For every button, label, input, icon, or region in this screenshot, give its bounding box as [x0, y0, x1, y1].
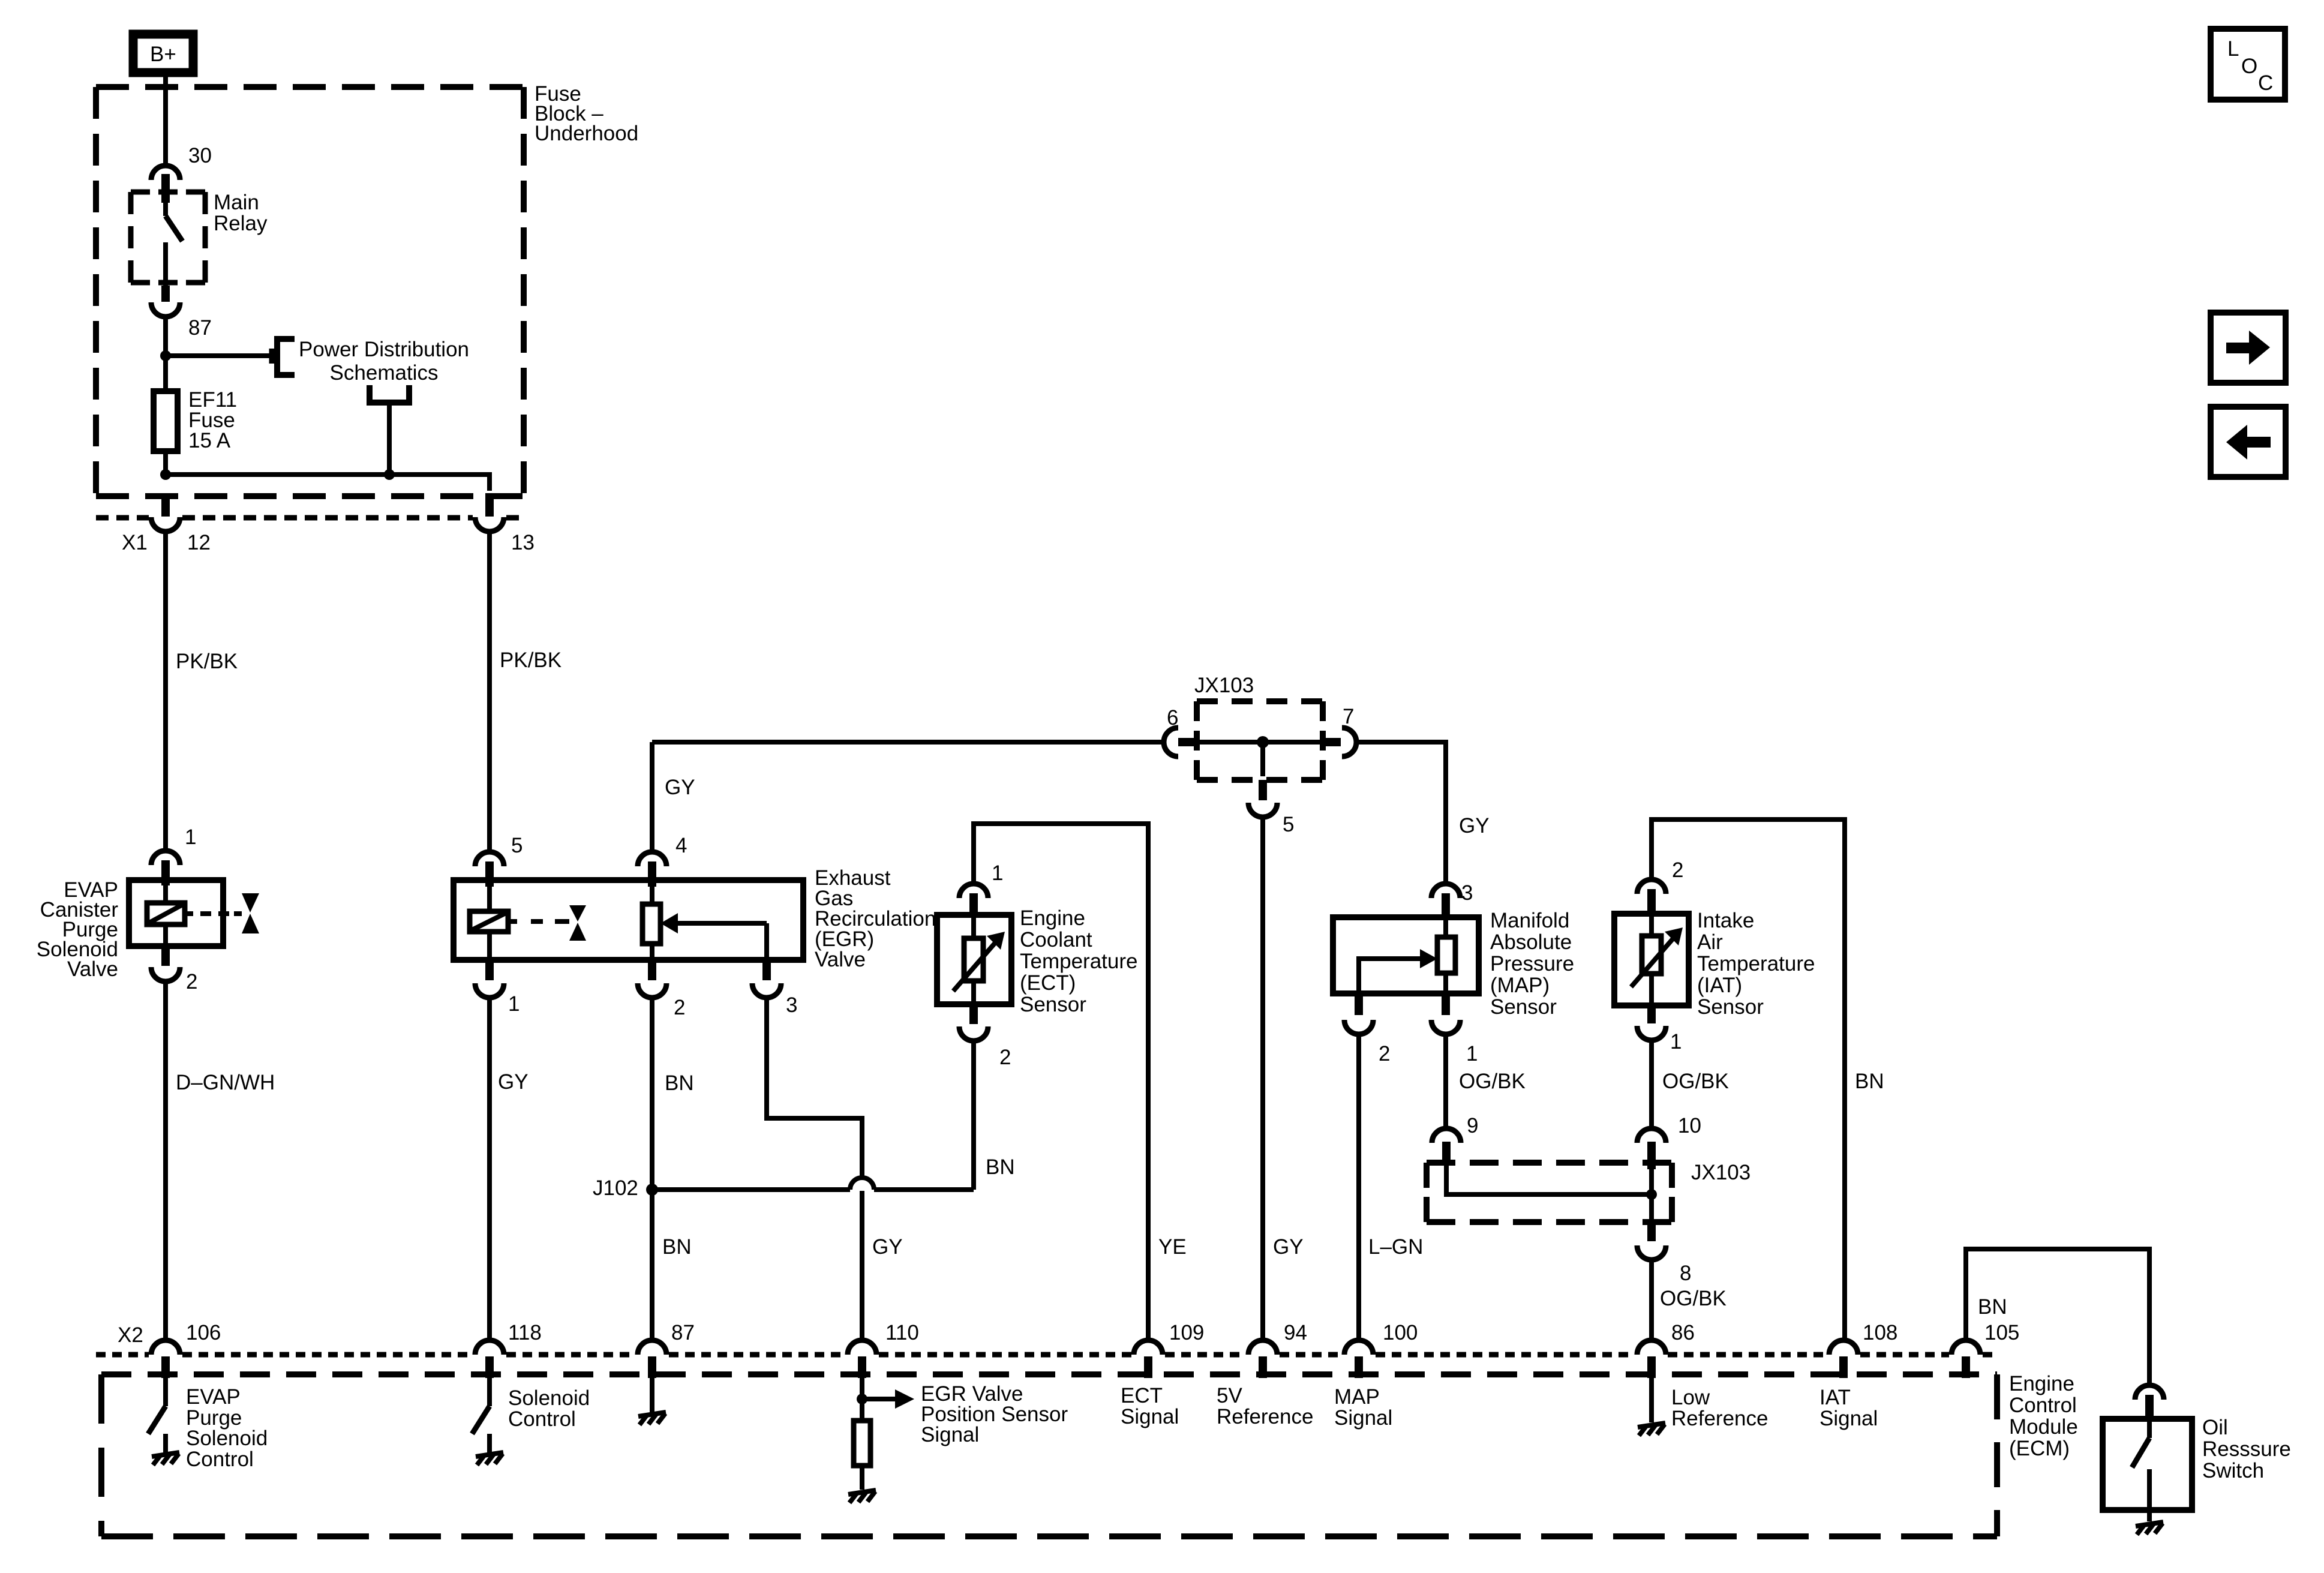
svg-text:Signal: Signal	[1819, 1407, 1878, 1430]
svg-text:(MAP): (MAP)	[1490, 974, 1550, 997]
svg-text:JX103: JX103	[1194, 674, 1254, 697]
wire GY pin4 up to 5V bus	[650, 742, 654, 849]
svg-text:L–GN: L–GN	[1368, 1235, 1423, 1259]
solenoid driver switch 118	[472, 1378, 490, 1452]
svg-text:9: 9	[1467, 1114, 1478, 1137]
svg-text:Control: Control	[2009, 1394, 2077, 1417]
svg-text:Reference: Reference	[1217, 1405, 1313, 1428]
wire OG/BK IAT pin1 to JX103 pin 10	[1649, 1041, 1654, 1127]
oil switch connector	[2135, 1385, 2164, 1421]
ECM dashed box	[101, 1374, 1997, 1536]
svg-text:Coolant: Coolant	[1020, 928, 1092, 951]
svg-text:Valve: Valve	[815, 948, 866, 971]
svg-text:Solenoid: Solenoid	[508, 1386, 590, 1410]
svg-text:Relay: Relay	[214, 212, 268, 235]
ground 87	[650, 1378, 654, 1412]
label EVAP Purge Solenoid Control	[186, 1385, 268, 1471]
X1 connector dotted row	[96, 515, 526, 521]
MAP pin 3 connector	[1431, 884, 1460, 918]
J102 junction dot	[646, 1184, 658, 1196]
MAP wiper arrow	[1359, 949, 1437, 993]
svg-text:Oil: Oil	[2202, 1416, 2228, 1439]
pin 94 connector	[1248, 1340, 1277, 1378]
pin 118 connector	[475, 1340, 504, 1378]
svg-text:Intake: Intake	[1697, 909, 1754, 932]
wire L-GN MAP signal to ECM 100	[1356, 1035, 1361, 1338]
ECT pin 1 connector	[959, 884, 988, 917]
svg-text:EVAP: EVAP	[186, 1385, 241, 1409]
EGR box	[454, 880, 803, 960]
pin 7 connector	[1323, 728, 1356, 757]
label EGR Valve Position Sensor Signal	[921, 1382, 1068, 1446]
svg-text:100: 100	[1383, 1321, 1418, 1344]
bus wire to pin 13	[166, 475, 490, 491]
svg-text:GY: GY	[498, 1070, 529, 1094]
ECT label	[1020, 906, 1137, 1016]
relay switch	[161, 203, 182, 302]
svg-text:109: 109	[1169, 1321, 1204, 1344]
svg-text:OG/BK: OG/BK	[1660, 1287, 1727, 1310]
EGR position sensor potentiometer	[642, 880, 660, 960]
svg-text:Underhood: Underhood	[535, 122, 638, 145]
wire OG/BK pin 8 to ECM 86	[1649, 1261, 1654, 1338]
internal bus	[1195, 740, 1323, 745]
svg-text:118: 118	[508, 1321, 542, 1344]
svg-text:PK/BK: PK/BK	[176, 650, 238, 673]
svg-text:Air: Air	[1697, 930, 1723, 954]
wire BN EGR pin2 down through J102 to ECM 87	[650, 999, 654, 1338]
svg-text:Low: Low	[1671, 1386, 1710, 1409]
svg-text:5: 5	[511, 834, 523, 857]
left arrow box	[2211, 407, 2286, 477]
svg-text:Control: Control	[186, 1448, 254, 1471]
svg-text:ECT: ECT	[1121, 1384, 1163, 1407]
svg-text:1: 1	[508, 992, 520, 1016]
svg-text:Temperature: Temperature	[1020, 950, 1137, 973]
svg-text:BN: BN	[986, 1155, 1015, 1179]
svg-text:Engine: Engine	[2009, 1372, 2074, 1395]
svg-text:GY: GY	[872, 1235, 903, 1259]
pin 1 connector EGR	[475, 960, 504, 998]
svg-text:OG/BK: OG/BK	[1662, 1070, 1729, 1093]
svg-text:2: 2	[674, 996, 685, 1019]
wire 87 to junction	[163, 318, 168, 356]
JX103 dashed box	[1197, 701, 1323, 780]
svg-text:Pressure: Pressure	[1490, 952, 1574, 975]
pin 5 connector	[475, 852, 504, 887]
svg-text:1: 1	[992, 861, 1003, 885]
oil switch label	[2202, 1416, 2291, 1482]
junction dot PDS	[384, 469, 395, 480]
svg-text:3: 3	[1461, 881, 1473, 905]
svg-text:8: 8	[1680, 1262, 1691, 1285]
svg-text:Signal: Signal	[1121, 1405, 1179, 1428]
svg-text:13: 13	[511, 531, 535, 554]
wire pin 7 to MAP pin 3	[1356, 742, 1446, 881]
svg-text:BN: BN	[662, 1235, 692, 1259]
svg-text:J102: J102	[593, 1176, 638, 1200]
pin 86 connector	[1637, 1340, 1666, 1378]
svg-text:105: 105	[1984, 1321, 2019, 1344]
svg-text:4: 4	[675, 834, 687, 857]
svg-text:2: 2	[1672, 858, 1683, 882]
pin 10 connector	[1637, 1128, 1666, 1169]
svg-text:MAP: MAP	[1334, 1385, 1380, 1409]
pin 108 connector	[1829, 1340, 1858, 1378]
svg-text:1: 1	[1670, 1030, 1682, 1053]
svg-text:(ECT): (ECT)	[1020, 971, 1076, 995]
svg-text:108: 108	[1863, 1321, 1897, 1344]
junction dot JX103	[1257, 736, 1269, 748]
X1 labels	[122, 531, 535, 554]
pin 1 connector	[151, 851, 180, 885]
svg-text:OG/BK: OG/BK	[1459, 1070, 1526, 1093]
right arrow box	[2211, 313, 2286, 383]
svg-text:YE: YE	[1158, 1235, 1187, 1259]
wire ECT pin2 down to J102 bus	[971, 1042, 976, 1190]
svg-text:GY: GY	[1459, 814, 1490, 837]
svg-text:X2: X2	[118, 1323, 143, 1347]
JX103 lower dashed box	[1427, 1163, 1672, 1222]
svg-text:2: 2	[999, 1046, 1011, 1069]
EVAP purge driver switch	[148, 1378, 166, 1452]
fuse label	[188, 388, 237, 452]
svg-text:(ECM): (ECM)	[2009, 1437, 2070, 1460]
MAP box	[1333, 917, 1479, 993]
svg-text:BN: BN	[1978, 1295, 2007, 1319]
pin 87 connector	[151, 302, 180, 317]
svg-text:Sensor: Sensor	[1490, 995, 1557, 1019]
main relay dashed box	[131, 192, 205, 283]
ECM label	[2009, 1372, 2078, 1460]
svg-text:1: 1	[185, 825, 196, 849]
pin 3 connector EGR	[752, 960, 781, 998]
ECT box	[937, 915, 1011, 1004]
X2 connector dotted row	[96, 1352, 1995, 1358]
EGR label	[815, 866, 936, 971]
svg-text:5V: 5V	[1217, 1384, 1242, 1407]
svg-text:Control: Control	[508, 1407, 576, 1431]
pin 100 connector	[1344, 1340, 1373, 1378]
oil switch box	[2103, 1419, 2192, 1510]
ground 106	[152, 1452, 179, 1465]
wire EGR pin3 jog to ECM 110	[767, 999, 862, 1338]
pin 87 connector ECM	[638, 1340, 666, 1378]
wire OG/BK MAP pin1 to JX103 pin 9	[1443, 1035, 1448, 1127]
svg-text:B+: B+	[150, 43, 176, 66]
wire J102 to ECT pin 2 with hop	[652, 1178, 974, 1190]
pin 109 connector	[1134, 1340, 1163, 1378]
svg-text:C: C	[2258, 71, 2273, 95]
svg-text:Solenoid: Solenoid	[186, 1427, 268, 1450]
label Low Reference	[1671, 1386, 1768, 1430]
svg-text:10: 10	[1678, 1114, 1701, 1137]
svg-text:Absolute: Absolute	[1490, 930, 1572, 954]
IAT box	[1614, 914, 1689, 1005]
svg-text:GY: GY	[1273, 1235, 1304, 1259]
pin 4 connector	[638, 852, 666, 887]
IAT label	[1697, 909, 1815, 1019]
EVAP label	[37, 878, 119, 981]
ground 118	[476, 1452, 503, 1465]
EVAP valve symbol	[242, 893, 259, 933]
svg-text:BN: BN	[1855, 1070, 1884, 1093]
wire BN ECM 105 to oil switch	[1966, 1249, 2149, 1383]
wire PK/BK left	[163, 533, 168, 849]
ground oil switch	[2136, 1522, 2163, 1535]
svg-text:GY: GY	[665, 776, 695, 799]
5V bus wire from EGR pin4 to JX103 pin 6	[652, 740, 1164, 745]
EVAP coil to valve dashes	[185, 911, 242, 916]
main relay label	[214, 191, 268, 235]
pin 105 connector	[1951, 1340, 1980, 1378]
svg-text:Schematics: Schematics	[330, 361, 439, 385]
pin 12 connector	[151, 493, 180, 532]
svg-text:1: 1	[1466, 1042, 1478, 1065]
svg-text:L: L	[2227, 37, 2239, 61]
label ECT Signal	[1121, 1384, 1179, 1428]
svg-text:X1: X1	[122, 531, 148, 554]
svg-text:Resssure: Resssure	[2202, 1437, 2291, 1461]
MAP potentiometer	[1437, 917, 1455, 993]
EGR wiper arrow	[660, 913, 767, 960]
power distribution label	[299, 338, 469, 385]
label Solenoid Control	[508, 1386, 590, 1431]
EVAP solenoid coil	[147, 880, 185, 946]
label Fuse Block Underhood	[535, 82, 638, 145]
pin 9 connector	[1432, 1128, 1461, 1162]
svg-text:JX103: JX103	[1691, 1161, 1750, 1184]
svg-text:Switch: Switch	[2202, 1459, 2264, 1482]
wire junction to PDS symbol	[166, 353, 269, 358]
wire 87 junction down through fuse	[163, 356, 168, 475]
svg-text:Sensor: Sensor	[1697, 995, 1764, 1019]
ECT pin 2 connector	[959, 1004, 988, 1041]
svg-text:Sensor: Sensor	[1020, 993, 1086, 1016]
ground 86	[1649, 1378, 1654, 1422]
svg-text:15 A: 15 A	[188, 429, 231, 452]
ECT thermistor	[953, 915, 1005, 1004]
EGR solenoid coil	[470, 880, 508, 960]
EGR signal input network	[854, 1378, 914, 1490]
label 5V Reference	[1217, 1384, 1313, 1428]
svg-text:Signal: Signal	[1334, 1406, 1392, 1430]
wire 5V reference down to ECM 94	[1260, 818, 1265, 1338]
svg-text:Power Distribution: Power Distribution	[299, 338, 469, 361]
EVAP valve box	[129, 880, 223, 946]
svg-text:Temperature: Temperature	[1697, 952, 1815, 975]
oil switch contacts	[2132, 1421, 2149, 1521]
svg-text:2: 2	[1379, 1042, 1390, 1065]
wire ECT pin1 to ECM 109 (YE)	[974, 824, 1148, 1338]
svg-text:Main: Main	[214, 191, 259, 214]
svg-text:O: O	[2241, 55, 2257, 78]
svg-text:Module: Module	[2009, 1415, 2078, 1439]
fuse EF11	[154, 391, 178, 451]
svg-text:D–GN/WH: D–GN/WH	[176, 1071, 275, 1094]
svg-text:Engine: Engine	[1020, 906, 1085, 930]
IAT thermistor	[1631, 914, 1683, 1005]
pin 110 connector	[848, 1340, 876, 1378]
svg-text:110: 110	[885, 1321, 919, 1344]
pin 2 connector	[151, 946, 180, 981]
wire IAT pin2 up over to BN drop	[1652, 819, 1845, 1338]
svg-text:PK/BK: PK/BK	[500, 649, 562, 672]
svg-text:2: 2	[186, 970, 197, 993]
svg-text:BN: BN	[665, 1071, 694, 1095]
svg-text:Valve: Valve	[67, 957, 118, 981]
pin 13 connector	[475, 493, 504, 532]
wire B+ to pin 30	[163, 77, 168, 163]
pin 6 connector	[1164, 728, 1196, 757]
pin 106 connector	[151, 1340, 180, 1378]
ground 110	[848, 1490, 876, 1503]
wire GY EGR pin1 down	[487, 999, 492, 1338]
B+ battery feed box	[133, 34, 193, 73]
pin 8 connector	[1637, 1222, 1666, 1260]
svg-text:12: 12	[187, 531, 211, 554]
wire PK/BK right	[487, 533, 492, 851]
svg-text:(IAT): (IAT)	[1697, 974, 1742, 997]
svg-text:IAT: IAT	[1819, 1386, 1851, 1409]
svg-text:3: 3	[786, 993, 797, 1017]
svg-text:30: 30	[188, 144, 212, 167]
internal wires lower JX103	[1446, 1161, 1652, 1224]
MAP pin 2 connector	[1344, 993, 1373, 1034]
MAP label	[1490, 909, 1574, 1019]
svg-text:Signal: Signal	[921, 1423, 979, 1446]
MAP pin 1 connector	[1431, 993, 1460, 1034]
svg-text:106: 106	[186, 1321, 221, 1344]
pin 2 connector EGR	[638, 960, 666, 998]
svg-text:87: 87	[188, 316, 212, 340]
EGR dashes	[508, 919, 569, 924]
pin 30 connector	[151, 166, 180, 203]
EGR valve symbol	[569, 905, 586, 941]
IAT pin 1 connector	[1637, 1005, 1666, 1040]
IAT pin 2 connector	[1637, 879, 1666, 915]
svg-text:Reference: Reference	[1671, 1407, 1768, 1430]
svg-text:7: 7	[1343, 705, 1354, 728]
power distribution off-page symbol	[272, 339, 295, 375]
svg-text:86: 86	[1671, 1321, 1695, 1344]
svg-text:Manifold: Manifold	[1490, 909, 1569, 932]
PDS bottom bracket	[370, 385, 409, 403]
svg-text:94: 94	[1284, 1321, 1307, 1344]
junction dot fuse bottom	[160, 469, 171, 480]
label IAT Signal	[1819, 1386, 1878, 1430]
pin 5 connector JX103	[1248, 742, 1277, 817]
wire bracket down to bus	[387, 406, 392, 475]
junction dot lower JX103	[1646, 1189, 1657, 1200]
fuse block dashed box	[96, 87, 524, 496]
label MAP Signal	[1334, 1385, 1392, 1430]
svg-text:5: 5	[1283, 813, 1294, 836]
junction dot	[160, 350, 171, 361]
wire D-GN/WH to ECM 106	[163, 983, 168, 1338]
svg-text:87: 87	[671, 1321, 695, 1344]
